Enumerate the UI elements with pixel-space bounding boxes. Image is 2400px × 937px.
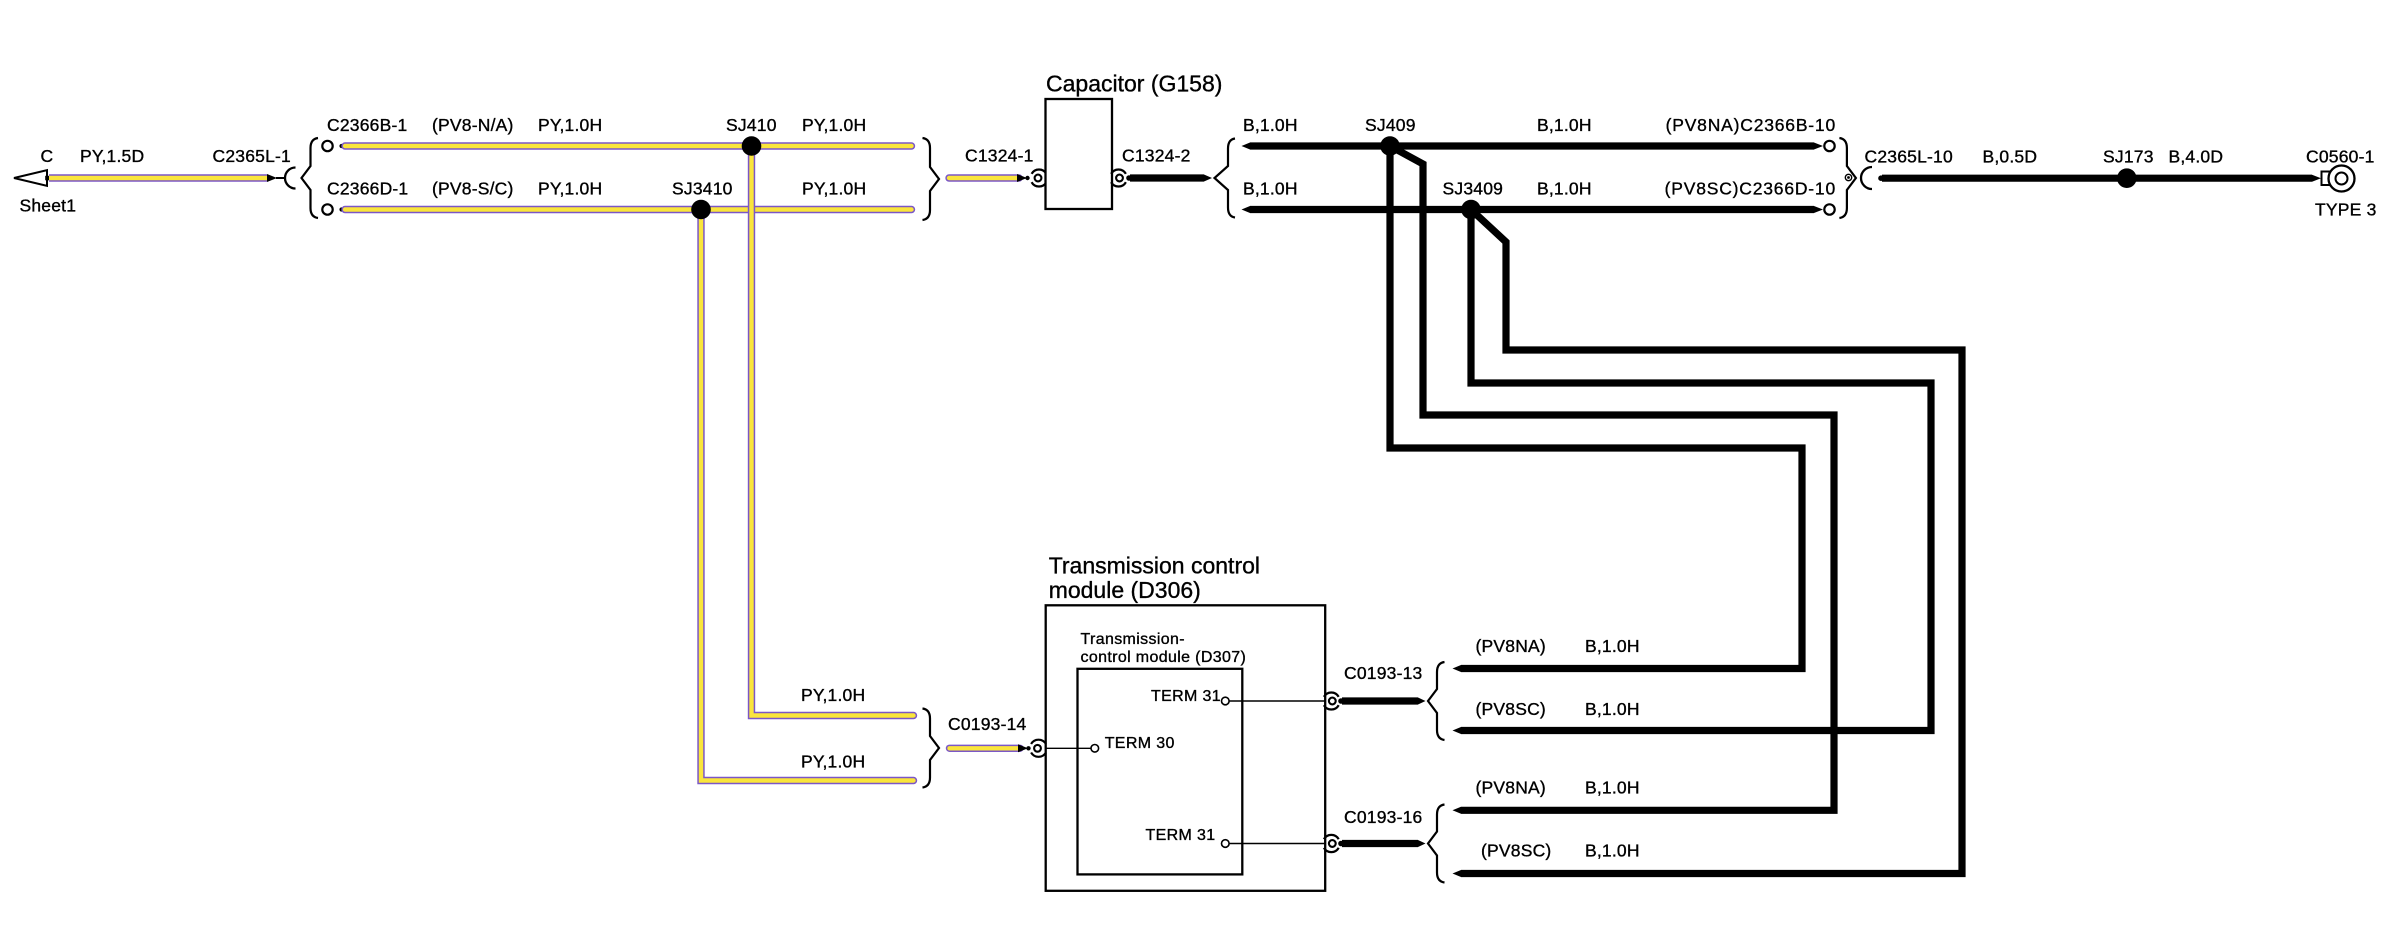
splice SJ409 — [1380, 136, 1400, 156]
svg-text:SJ3409: SJ3409 — [1443, 179, 1504, 199]
label C2365L-1 — [213, 146, 291, 166]
label TERM 31 bottom — [1145, 827, 1215, 844]
label TERM 31 top — [1151, 688, 1221, 705]
brace split C1324-2 into two wires — [1215, 139, 1236, 218]
label B,0.5D — [1983, 147, 2038, 167]
svg-text:(PV8NA)C2366B-10: (PV8NA)C2366B-10 — [1666, 115, 1836, 135]
connector C1324-1 — [1032, 169, 1047, 186]
label C2366D-1 — [327, 179, 408, 199]
wire SJ409 straight down to C0193-13 (PV8NA) — [1390, 146, 1802, 672]
label (PV8SC)C2366D-10 — [1665, 179, 1836, 199]
wire B,1.0H top to C2366B-10 — [1242, 141, 1835, 151]
label B,1.0H row1 a — [1243, 115, 1298, 135]
pin TERM 31 top — [1222, 697, 1326, 705]
label C0560-1 — [2306, 147, 2375, 167]
svg-text:SJ410: SJ410 — [726, 115, 777, 135]
svg-text:Sheet1: Sheet1 — [20, 196, 77, 216]
svg-text:C2365L-10: C2365L-10 — [1865, 147, 1953, 167]
transmission control module D306 box — [1046, 605, 1326, 891]
svg-text:PY,1.0H: PY,1.0H — [538, 179, 602, 199]
label TERM 30 — [1105, 735, 1175, 752]
svg-text:Capacitor (G158): Capacitor (G158) — [1046, 71, 1222, 97]
svg-text:B,1.0H: B,1.0H — [1243, 179, 1298, 199]
wire PY,1.5D from arrow to C2365L-1 — [49, 174, 286, 182]
transmission control module D307 inner box — [1078, 669, 1243, 875]
label SJ3410 — [672, 179, 733, 199]
splice SJ410 — [742, 136, 762, 156]
svg-text:B,1.0H: B,1.0H — [1585, 778, 1640, 798]
svg-text:B,0.5D: B,0.5D — [1983, 147, 2038, 167]
svg-text:PY,1.0H: PY,1.0H — [538, 115, 602, 135]
capacitor G158 box — [1046, 99, 1113, 209]
label B,1.0H c16b — [1585, 841, 1640, 861]
connector C2365L-1 — [285, 168, 296, 189]
label PY,1.0H lower2 — [801, 752, 865, 772]
svg-text:C1324-2: C1324-2 — [1122, 146, 1191, 166]
svg-text:Transmission control: Transmission control — [1049, 553, 1260, 579]
label B,4.0D — [2169, 147, 2224, 167]
pin indicator at C2365L-10 — [1845, 174, 1851, 180]
svg-text:Transmission-: Transmission- — [1081, 631, 1185, 648]
wire SJ3409 straight down to C0193-13 (PV8SC) — [1453, 210, 1932, 735]
splice SJ3409 — [1461, 200, 1481, 220]
connector C2365L-10 — [1861, 167, 1872, 189]
label B,1.0H c16a — [1585, 778, 1640, 798]
label Capacitor (G158) — [1046, 71, 1222, 97]
svg-text:SJ173: SJ173 — [2103, 147, 2154, 167]
svg-text:PY,1.5D: PY,1.5D — [80, 146, 144, 166]
svg-text:B,1.0H: B,1.0H — [1585, 841, 1640, 861]
label SJ410 — [726, 115, 777, 135]
label C1324-1 — [965, 146, 1034, 166]
connector C0193-16 — [1324, 835, 1339, 852]
label B,1.0H row2 a — [1243, 179, 1298, 199]
ground ring terminal C0560-1 TYPE 3 — [2322, 166, 2355, 192]
wire C2366D-1 (PV8-S/C) PY,1.0H — [322, 204, 911, 214]
label (PV8SC) c13 — [1476, 699, 1546, 719]
pin TERM 31 bottom — [1222, 840, 1326, 848]
label PY,1.5D — [80, 146, 144, 166]
svg-text:control module (D307): control module (D307) — [1081, 649, 1247, 666]
svg-text:TERM 31: TERM 31 — [1145, 827, 1215, 844]
svg-text:SJ3410: SJ3410 — [672, 179, 733, 199]
label (PV8-N/A) — [432, 115, 514, 135]
svg-text:B,1.0H: B,1.0H — [1585, 699, 1640, 719]
label B,1.0H c13a — [1585, 636, 1640, 656]
brace split C0193-16 — [1428, 805, 1445, 883]
svg-text:(PV8SC): (PV8SC) — [1476, 699, 1546, 719]
splice SJ3410 — [691, 200, 711, 220]
label C1324-2 — [1122, 146, 1191, 166]
svg-text:TERM 30: TERM 30 — [1105, 735, 1175, 752]
brace merge into C1324-1 — [923, 138, 940, 220]
wire C0193-13 — [1338, 698, 1425, 705]
label SJ409 — [1365, 115, 1416, 135]
connector C1324-2 — [1111, 169, 1126, 186]
wire from SJ410 down to C0193-14 brace — [752, 146, 914, 716]
svg-text:SJ409: SJ409 — [1365, 115, 1416, 135]
svg-text:(PV8NA): (PV8NA) — [1476, 636, 1546, 656]
label Transmission control — [1049, 553, 1260, 579]
wire SJ409 diagonal branch to C0193-16 (PV8NA) — [1390, 146, 1834, 814]
svg-text:C: C — [41, 146, 54, 166]
svg-text:B,1.0H: B,1.0H — [1537, 179, 1592, 199]
label PY,1.0H bottom right — [802, 179, 866, 199]
svg-text:PY,1.0H: PY,1.0H — [802, 115, 866, 135]
label (PV8NA)C2366B-10 — [1666, 115, 1836, 135]
wire PY into C0193-14 — [950, 744, 1031, 752]
connector C0193-14 — [1031, 740, 1046, 757]
label PY,1.0H lower1 — [801, 685, 865, 705]
label (PV8SC) c16 — [1481, 841, 1551, 861]
off-page arrow C to Sheet1 — [14, 170, 50, 186]
wire B,0.5D — [1878, 175, 2127, 181]
label C — [41, 146, 54, 166]
wire B,4.0D — [2127, 175, 2321, 182]
wire C2366B-1 (PV8-N/A) PY,1.0H — [322, 141, 911, 151]
label control module (D307) — [1081, 649, 1247, 666]
label B,1.0H c13b — [1585, 699, 1640, 719]
svg-text:(PV8NA): (PV8NA) — [1476, 778, 1546, 798]
wire PY into C1324-1 — [949, 174, 1030, 182]
svg-text:B,1.0H: B,1.0H — [1243, 115, 1298, 135]
svg-text:(PV8SC): (PV8SC) — [1481, 841, 1551, 861]
label C0193-14 — [948, 714, 1027, 734]
label Transmission- — [1081, 631, 1185, 648]
label module (D306) — [1049, 577, 1201, 603]
wire B,1.0H bottom to C2366D-10 — [1242, 204, 1835, 214]
brace merge into C2365L-10 — [1839, 138, 1856, 218]
svg-text:C2365L-1: C2365L-1 — [213, 146, 291, 166]
label (PV8NA) c16 — [1476, 778, 1546, 798]
svg-text:C0193-13: C0193-13 — [1344, 663, 1422, 683]
svg-text:PY,1.0H: PY,1.0H — [802, 179, 866, 199]
brace split C2365L-1 into two wires — [302, 138, 319, 218]
svg-text:B,1.0H: B,1.0H — [1537, 115, 1592, 135]
svg-text:(PV8-S/C): (PV8-S/C) — [432, 179, 514, 199]
label C0193-13 — [1344, 663, 1422, 683]
svg-text:module (D306): module (D306) — [1049, 577, 1201, 603]
svg-text:C1324-1: C1324-1 — [965, 146, 1034, 166]
svg-text:C2366B-1: C2366B-1 — [327, 115, 407, 135]
svg-text:(PV8SC)C2366D-10: (PV8SC)C2366D-10 — [1665, 179, 1836, 199]
svg-text:PY,1.0H: PY,1.0H — [801, 685, 865, 705]
label C2366B-1 — [327, 115, 407, 135]
brace split C0193-13 — [1428, 662, 1445, 740]
label C2365L-10 — [1865, 147, 1953, 167]
wire SJ3409 diagonal branch to C0193-16 (PV8SC) — [1453, 210, 1963, 878]
label C0193-16 — [1344, 807, 1422, 827]
label SJ3409 — [1443, 179, 1504, 199]
label PY,1.0H bottom — [538, 179, 602, 199]
label Sheet1 — [20, 196, 77, 216]
splice SJ173 — [2117, 168, 2137, 188]
label (PV8-S/C) — [432, 179, 514, 199]
label PY,1.0H top right — [802, 115, 866, 135]
svg-text:PY,1.0H: PY,1.0H — [801, 752, 865, 772]
label (PV8NA) c13 — [1476, 636, 1546, 656]
svg-text:TERM 31: TERM 31 — [1151, 688, 1221, 705]
brace merge into C0193-14 — [923, 709, 940, 788]
wire from SJ3410 down to C0193-14 brace — [701, 210, 914, 781]
wire B from C1324-2 to brace — [1126, 175, 1212, 182]
svg-text:(PV8-N/A): (PV8-N/A) — [432, 115, 514, 135]
svg-text:B,4.0D: B,4.0D — [2169, 147, 2224, 167]
svg-text:C0193-14: C0193-14 — [948, 714, 1027, 734]
svg-text:C0560-1: C0560-1 — [2306, 147, 2375, 167]
connector C0193-13 — [1324, 692, 1339, 709]
label B,1.0H row1 b — [1537, 115, 1592, 135]
svg-text:TYPE 3: TYPE 3 — [2315, 200, 2377, 220]
pin TERM 30 — [1046, 745, 1099, 753]
label SJ173 — [2103, 147, 2154, 167]
label TYPE 3 — [2315, 200, 2377, 220]
svg-text:C2366D-1: C2366D-1 — [327, 179, 408, 199]
label B,1.0H row2 b — [1537, 179, 1592, 199]
svg-text:B,1.0H: B,1.0H — [1585, 636, 1640, 656]
label PY,1.0H top — [538, 115, 602, 135]
svg-text:C0193-16: C0193-16 — [1344, 807, 1422, 827]
wire C0193-16 — [1338, 840, 1425, 847]
